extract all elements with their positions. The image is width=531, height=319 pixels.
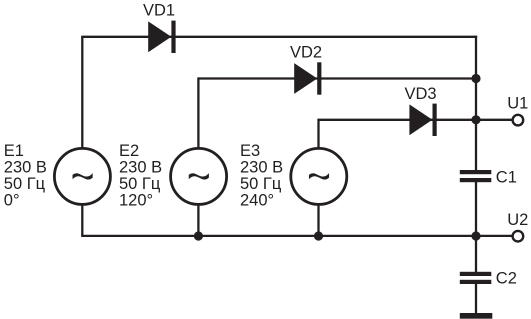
wire: E2 bottom vertical <box>197 204 199 236</box>
value label E1 (230 В, 50 Гц, 0°) <box>4 142 47 210</box>
svg-text:E2: E2 <box>119 142 139 160</box>
wire: right rail bottom bus to C2 <box>475 236 477 273</box>
svg-text:VD3: VD3 <box>404 85 436 103</box>
svg-text:E3: E3 <box>240 142 260 160</box>
diode VD1 <box>148 21 173 53</box>
value label E3 (230 В, 50 Гц, 240°) <box>240 142 283 210</box>
wire: bottom horizontal bus <box>81 235 476 237</box>
diode VD2 <box>294 62 319 94</box>
svg-text:230 В: 230 В <box>4 159 47 177</box>
svg-text:VD1: VD1 <box>143 2 175 20</box>
wire: VD3 row horizontal (to terminal U1) <box>319 119 514 121</box>
wire: right rail C2 to end bar <box>475 283 477 316</box>
capacitor C1 <box>460 170 492 182</box>
svg-text:120°: 120° <box>119 192 153 210</box>
svg-text:U1: U1 <box>507 94 528 112</box>
wire: E2 top vertical <box>197 77 199 149</box>
svg-text:0°: 0° <box>4 192 20 210</box>
svg-text:230 В: 230 В <box>240 159 283 177</box>
value label E2 (230 В, 50 Гц, 120°) <box>119 142 162 210</box>
diode VD3 <box>409 104 434 136</box>
svg-text:240°: 240° <box>240 192 274 210</box>
svg-text:50 Гц: 50 Гц <box>4 175 46 193</box>
svg-text:E1: E1 <box>4 142 24 160</box>
wire: top horizontal (E1 to right rail) <box>81 36 477 38</box>
junction: E2 bottom on bus <box>194 231 203 240</box>
svg-text:50 Гц: 50 Гц <box>240 175 282 193</box>
wire: right rail top (to C1) <box>475 36 477 171</box>
svg-text:50 Гц: 50 Гц <box>119 175 161 193</box>
junction: right rail on bus <box>471 231 480 240</box>
bottom termination bar <box>460 313 493 319</box>
wire: E3 top vertical <box>317 119 319 149</box>
source E2 <box>171 148 227 204</box>
terminal U1 <box>513 115 524 126</box>
source E1 <box>54 148 110 204</box>
terminal U2 <box>513 231 524 242</box>
svg-text:C2: C2 <box>496 270 517 288</box>
wire: right rail C1 to bottom bus <box>475 181 477 236</box>
svg-text:230 В: 230 В <box>119 159 162 177</box>
capacitor C2 <box>460 272 492 284</box>
wire: E1 bottom vertical <box>81 204 83 236</box>
svg-text:VD2: VD2 <box>290 43 322 61</box>
wire: E3 bottom vertical <box>317 204 319 236</box>
source E3 <box>291 148 347 204</box>
junction: VD2 output on right rail <box>471 74 480 83</box>
wire: VD2 row horizontal <box>198 77 476 79</box>
junction: E3 bottom on bus <box>314 231 323 240</box>
wire: E1 top vertical <box>81 37 83 149</box>
junction: VD3 output on right rail <box>471 115 480 124</box>
svg-text:C1: C1 <box>496 168 517 186</box>
svg-text:U2: U2 <box>507 211 528 229</box>
wire: U2 stub <box>476 235 514 237</box>
